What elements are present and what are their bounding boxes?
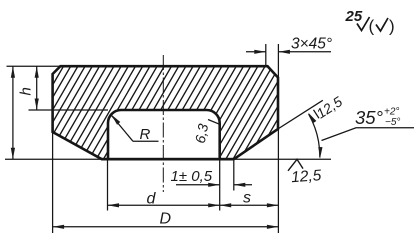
svg-text:h: h bbox=[18, 87, 35, 95]
extension line bevel corner bbox=[233, 159, 235, 190]
bottom extension to the right bbox=[234, 158, 331, 160]
part outline bbox=[53, 66, 278, 159]
cavity outline bbox=[108, 110, 220, 159]
svg-text:12,5: 12,5 bbox=[291, 167, 323, 186]
dimension h line bbox=[36, 66, 38, 110]
big check bbox=[357, 17, 370, 31]
roughness 12,5 on bevel extension bbox=[314, 110, 320, 119]
extension line cavity right bbox=[219, 159, 221, 210]
svg-text:6,3: 6,3 bbox=[192, 122, 211, 144]
svg-text:d: d bbox=[147, 191, 157, 208]
dimension D line bbox=[53, 226, 279, 228]
top edge extension line bbox=[7, 65, 61, 67]
svg-text:(: ( bbox=[369, 17, 375, 36]
dimension 1 +-0.5 lines bbox=[176, 184, 220, 186]
dimension 3x45 lines bbox=[246, 51, 266, 53]
svg-text:35°: 35° bbox=[355, 107, 383, 128]
step line (cavity top edge extension) bbox=[29, 109, 109, 111]
svg-text:s: s bbox=[243, 190, 251, 207]
small check bbox=[376, 18, 388, 31]
roughness 12,5 below bottom extension bbox=[288, 159, 303, 171]
centerline bbox=[162, 55, 164, 192]
extension line chamfer left bbox=[265, 44, 267, 66]
svg-text:D: D bbox=[160, 210, 172, 227]
extension line right edge bbox=[277, 44, 279, 78]
extension line D left bbox=[52, 132, 54, 233]
svg-text:1± 0,5: 1± 0,5 bbox=[171, 168, 213, 185]
angle arc bbox=[309, 114, 320, 158]
svg-text:): ) bbox=[389, 17, 395, 36]
overall height dimension line bbox=[12, 66, 14, 159]
hatching bbox=[0, 47, 370, 172]
bottom edge extension line bbox=[5, 158, 102, 160]
svg-text:25: 25 bbox=[345, 8, 363, 25]
svg-text:3×45°: 3×45° bbox=[291, 36, 332, 53]
dimension s line bbox=[220, 204, 279, 206]
svg-text:−5°: −5° bbox=[385, 117, 400, 128]
svg-text:+2°: +2° bbox=[384, 107, 399, 118]
dimension d line bbox=[108, 204, 220, 206]
bottom edge across cavity bbox=[102, 158, 234, 161]
svg-text:R: R bbox=[140, 126, 151, 143]
bevel angle extension line bbox=[278, 100, 323, 129]
extension line cavity left bbox=[107, 159, 109, 210]
leader for 35 degrees bbox=[322, 128, 415, 141]
